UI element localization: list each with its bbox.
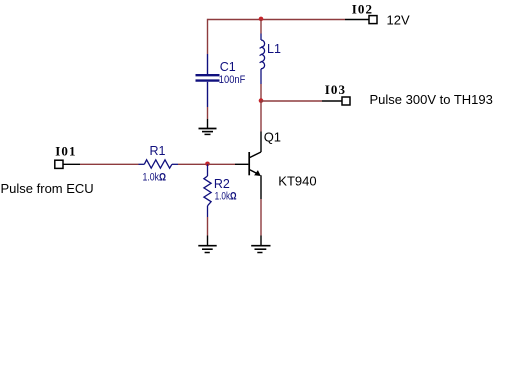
svg-text:I03: I03	[325, 82, 346, 97]
ground below emitter	[251, 236, 270, 253]
node junction top (wire to L1)	[259, 17, 264, 22]
svg-text:Q1: Q1	[264, 129, 281, 144]
wire top rail from C1 corner to I02 pin	[208, 19, 346, 21]
node junction base	[205, 162, 210, 167]
terminal I03 box	[342, 97, 350, 105]
svg-text:R2: R2	[214, 177, 230, 191]
ground below R2	[198, 236, 216, 253]
svg-text:KT940: KT940	[278, 173, 316, 188]
terminal I02 pin	[345, 19, 369, 21]
terminal I01 box	[55, 160, 63, 168]
inductor L1	[260, 34, 265, 85]
transistor Q1	[235, 132, 261, 200]
wire L1 to collector node	[260, 84, 262, 101]
svg-text:Pulse 300V to TH193: Pulse 300V to TH193	[370, 92, 493, 107]
ground below C1	[199, 119, 217, 134]
svg-text:I02: I02	[352, 1, 373, 16]
wire C1 branch vertical red upper	[207, 19, 209, 54]
terminal I03 pin	[322, 100, 342, 102]
wire node to base pin	[208, 163, 236, 165]
wire R2 to ground	[207, 217, 209, 236]
svg-text:I01: I01	[55, 143, 76, 158]
svg-text:R1: R1	[150, 144, 166, 158]
svg-text:100nF: 100nF	[219, 74, 246, 86]
transistor Q1 emitter arrowhead	[254, 170, 261, 176]
wire emitter to ground	[260, 199, 262, 236]
svg-text:1.0kΩ: 1.0kΩ	[143, 171, 167, 183]
capacitor C1	[196, 54, 220, 107]
wire C1 to ground red	[207, 107, 209, 119]
wire junction to L1	[260, 20, 262, 34]
wire node to I03	[261, 100, 322, 102]
svg-text:C1: C1	[220, 60, 236, 74]
svg-text:1.0kΩ: 1.0kΩ	[215, 190, 237, 202]
wire R1 to node	[178, 163, 208, 165]
terminal I02 box	[369, 16, 377, 24]
terminal I01 pin	[63, 163, 80, 165]
svg-text:12V: 12V	[387, 12, 410, 27]
wire node to collector pin	[260, 101, 262, 132]
svg-text:Pulse from ECU: Pulse from ECU	[1, 181, 94, 196]
node junction collector (to I03)	[259, 98, 264, 103]
resistor R2	[204, 164, 211, 217]
svg-text:L1: L1	[267, 42, 281, 56]
wire I01 to R1	[80, 163, 139, 165]
resistor R1	[139, 160, 179, 168]
